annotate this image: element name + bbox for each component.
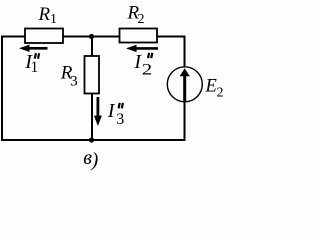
resistor R1 <box>25 29 63 44</box>
label I1'' <box>24 51 39 76</box>
svg-text:2: 2 <box>138 12 145 27</box>
svg-text:): ) <box>91 149 99 171</box>
wire top-left horizontal <box>1 36 25 38</box>
label R3 <box>60 63 78 90</box>
label R2 <box>127 3 145 27</box>
wire top-middle horizontal <box>63 36 120 38</box>
wire top-right horizontal <box>157 36 186 38</box>
label I2'' <box>133 51 152 79</box>
label R1 <box>38 4 58 27</box>
resistor R2 <box>120 29 158 43</box>
current arrow I1'' <box>19 45 48 52</box>
wire right upper vertical <box>184 36 186 68</box>
svg-text:2: 2 <box>142 62 153 79</box>
svg-text:E: E <box>205 77 217 97</box>
current arrow I2'' <box>126 45 158 52</box>
node junction top <box>89 34 94 39</box>
label E2 <box>205 77 224 101</box>
wire left vertical <box>1 36 3 142</box>
resistor R3 <box>85 56 100 94</box>
svg-text:3: 3 <box>116 111 124 128</box>
source E2 <box>167 67 202 102</box>
wire right lower vertical <box>184 102 186 142</box>
wire bottom horizontal <box>1 139 186 141</box>
current arrow I3'' <box>94 97 102 126</box>
svg-text:2: 2 <box>217 86 224 101</box>
svg-text:1: 1 <box>50 12 57 27</box>
wire R3 branch upper vertical <box>91 37 93 57</box>
node junction bottom <box>89 137 94 142</box>
svg-text:R: R <box>38 4 51 25</box>
wire R3 branch lower vertical <box>91 94 93 141</box>
svg-text:3: 3 <box>70 74 78 90</box>
label I3'' <box>107 100 124 128</box>
caption в) <box>83 147 98 171</box>
svg-text:I: I <box>107 100 116 122</box>
svg-text:1: 1 <box>30 59 38 76</box>
